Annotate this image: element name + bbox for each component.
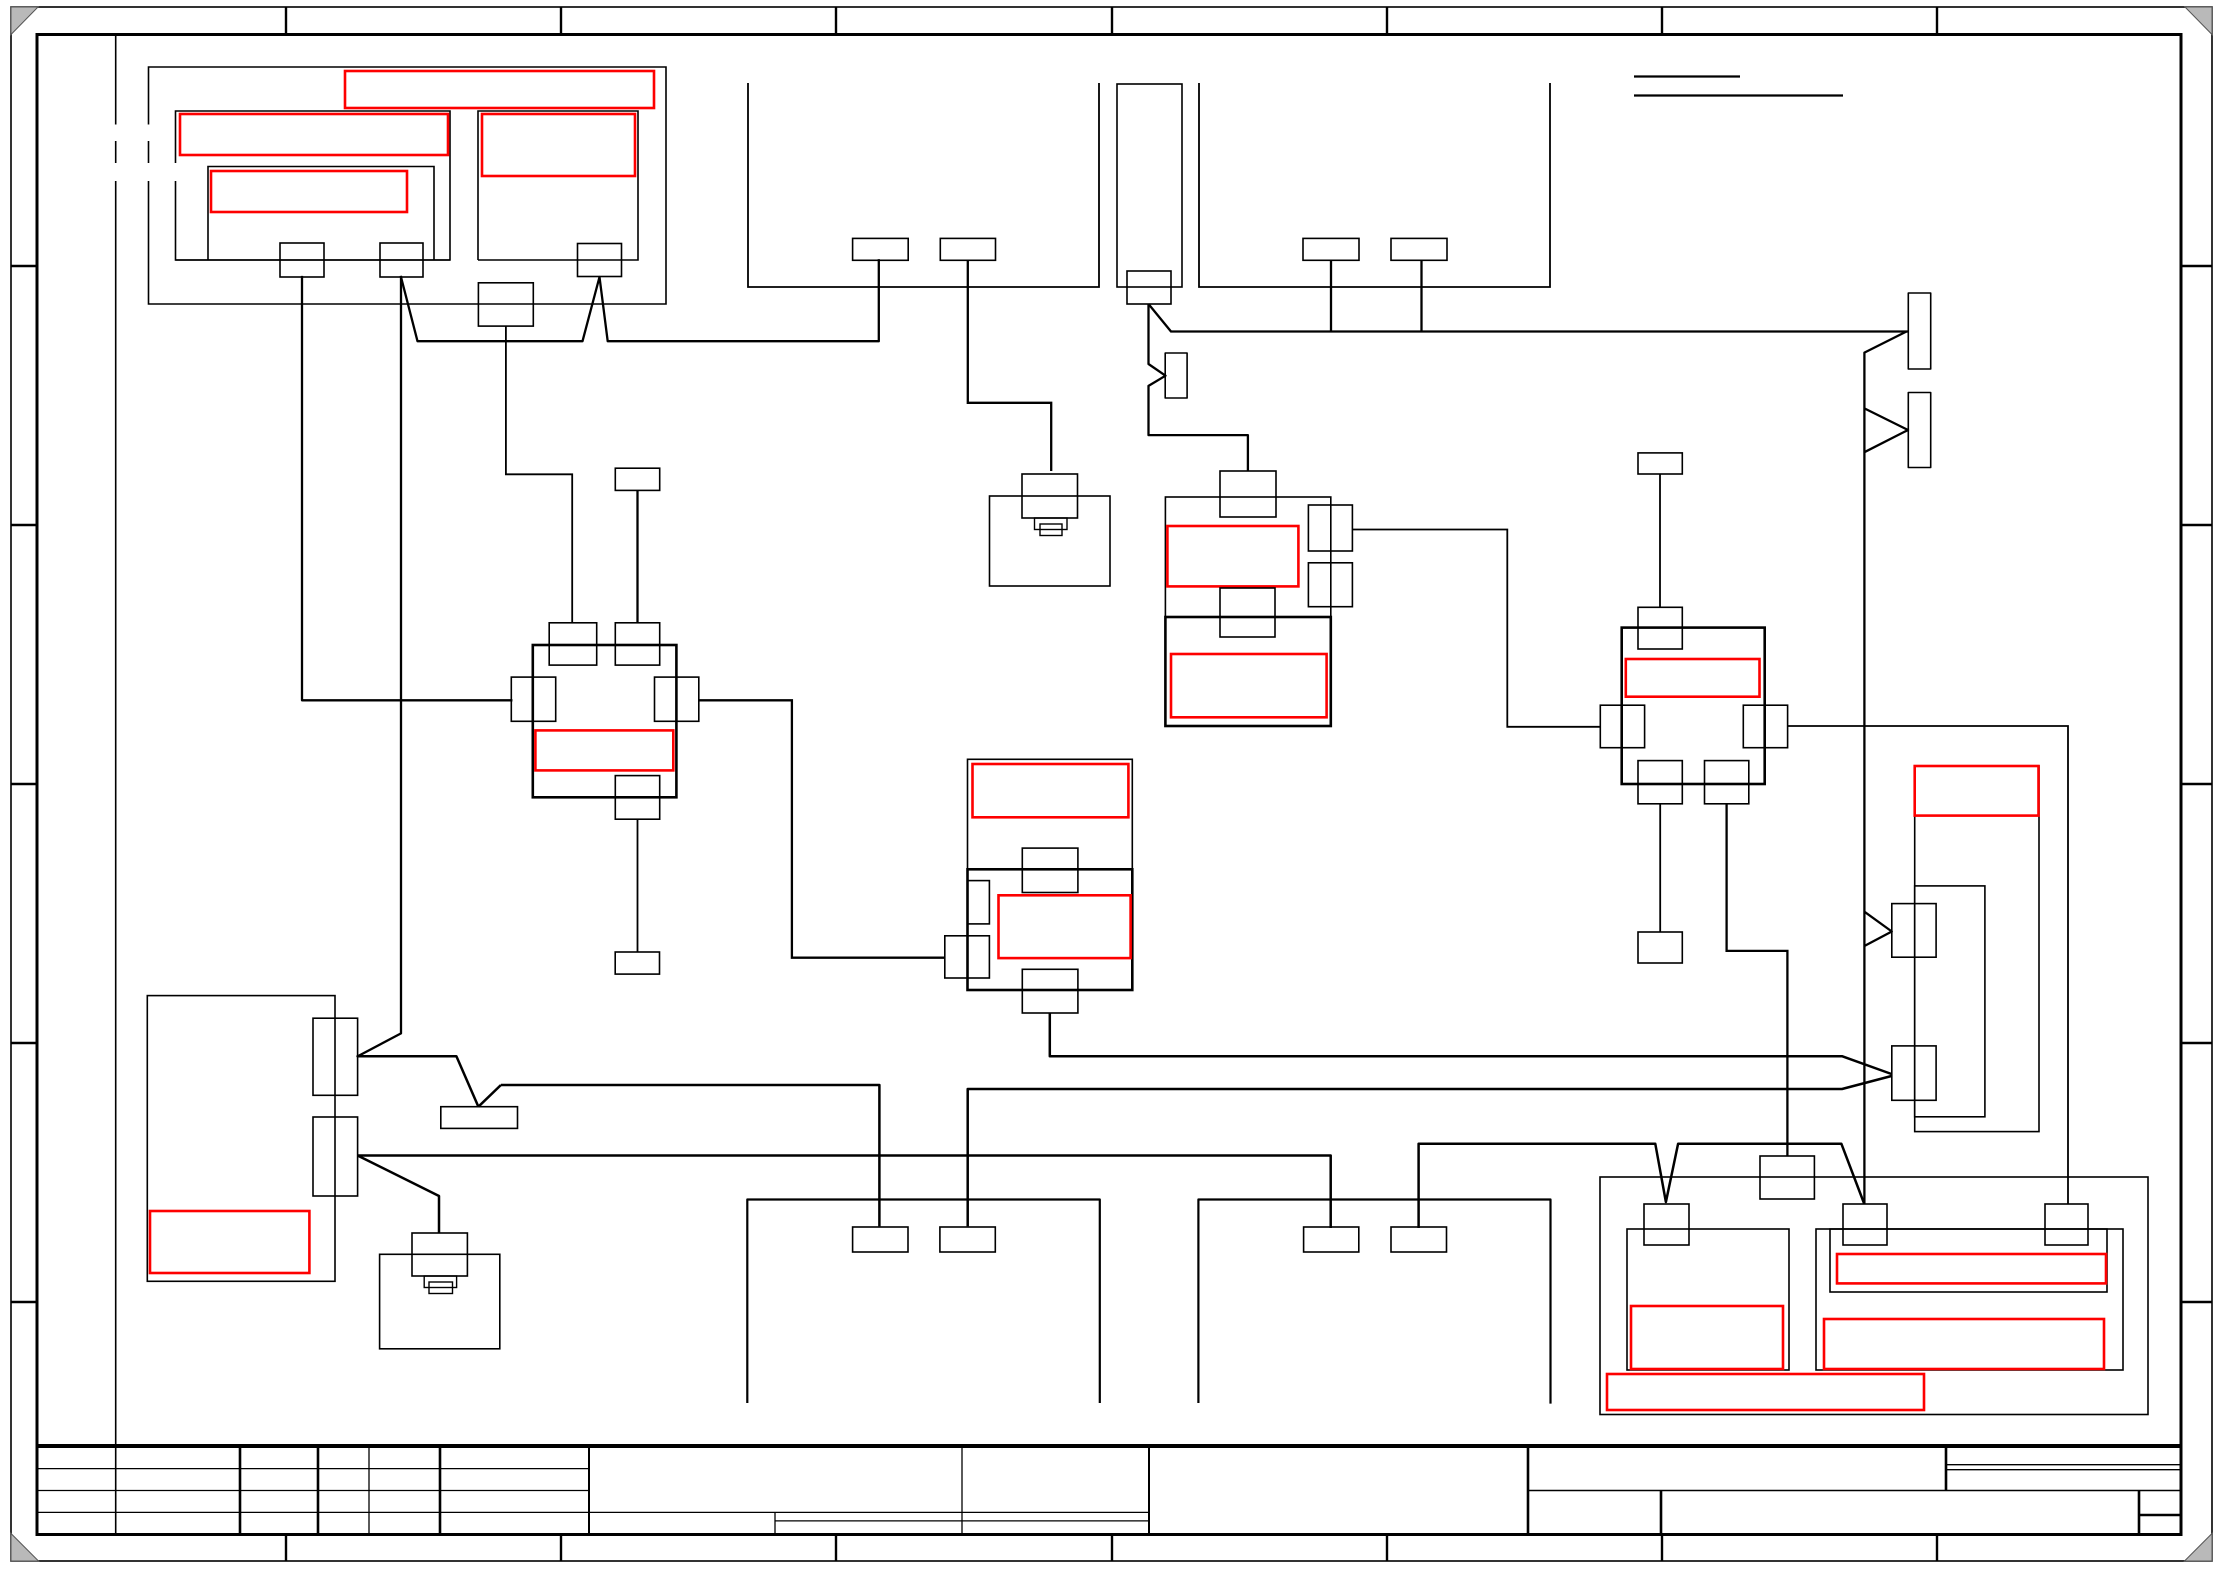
LEFT RELAY CLUSTER: [478, 283, 944, 974]
title row line 2: [37, 1490, 589, 1492]
stem U2-1 to bus: [1330, 260, 1332, 331]
fan into box H pin 1: [1864, 912, 1891, 946]
pin UB1-2: [940, 1227, 995, 1252]
wire W: U-box2 pin2 up, right, V-dip, to bottom-right pins: [1419, 1144, 1865, 1228]
TOP MIDDLE: [748, 83, 1550, 586]
BOTTOM LEFT CLUSTER (box I): [147, 996, 357, 1282]
MAIN RIGHTWARD BUS from tall-rect pin: [1149, 293, 1931, 1204]
camera pin: [1022, 474, 1078, 518]
WIRES top-left: [302, 260, 879, 1056]
small box E on equipment box A bottom: [478, 283, 533, 326]
red box I1: [150, 1211, 309, 1273]
pin P1: [280, 243, 324, 277]
bottom margin zone ticks: [286, 1535, 1937, 1562]
pin F-mid (on divider): [1220, 588, 1275, 637]
pin F-top: [1220, 471, 1276, 517]
box H inner rect: [1915, 886, 1985, 1117]
relay pin bottom: [615, 776, 659, 820]
pin BR-B: [1843, 1204, 1887, 1245]
wire P2 down to box I pin1 (long vertical): [358, 277, 401, 1056]
bottom U-box 1 top rail: [747, 1200, 1100, 1404]
pin BR-A: [1644, 1204, 1689, 1245]
box G (thick): [1622, 628, 1765, 784]
pin I-1 (tall): [313, 1018, 358, 1095]
wire relay right pin to box K left pin: [699, 700, 945, 957]
red box R1-2: [1824, 1319, 2104, 1369]
right margin zone ticks: [2181, 266, 2212, 1302]
bus B1 from box K bottom pin to box H pin2 (arrow): [1050, 1013, 1892, 1074]
title row line 3b: [775, 1520, 1149, 1522]
BOTTOM U-BOXES: [853, 1227, 1447, 1252]
box I pin1 wire to vertical: [358, 1056, 479, 1106]
pin F-right-1: [1308, 505, 1352, 551]
box I: [147, 996, 335, 1282]
connector box C: [208, 167, 434, 261]
title column dividers: [239, 1446, 242, 1535]
corner triangle top-left: [11, 7, 38, 35]
relay pin top-2: [615, 623, 659, 665]
camera inner rect 1: [1035, 518, 1068, 530]
pin H-1: [1892, 904, 1936, 958]
pin K-bottom: [1022, 969, 1078, 1013]
red box F1: [1167, 526, 1298, 586]
pin P2: [380, 243, 423, 277]
red box F2: [1171, 654, 1327, 717]
title row thick short right: [2139, 1514, 2181, 1517]
ref line 1: [1634, 75, 1740, 77]
CENTER CLUSTER (box K): [945, 759, 1133, 1013]
relay pin left: [511, 677, 555, 721]
relay pin right: [655, 677, 699, 721]
bus B3 from box I pin2 to U-box2 pin1: [358, 1156, 1331, 1229]
camera2 wire diagonal from box I pin2: [358, 1156, 439, 1234]
pin G-right: [1743, 705, 1787, 748]
small source box above G: [1638, 453, 1682, 474]
pin H-2: [1892, 1046, 1936, 1100]
inner box R2: [1830, 1229, 2107, 1292]
red box H1: [1915, 766, 2039, 816]
red box relay: [535, 730, 673, 770]
highlight red box C1: [211, 171, 407, 212]
terminal rect tap 1: [1908, 293, 1930, 369]
relay box (thick): [533, 645, 677, 797]
pin K-left: [945, 936, 990, 978]
splice J fan up to B2: [478, 1085, 501, 1107]
wire F-right-1 to box G left pin: [1352, 530, 1600, 727]
red box K2: [999, 895, 1131, 958]
pin U1-1: [853, 238, 909, 260]
title row line 1: [37, 1468, 589, 1470]
BOTTOM RIGHT CLUSTER: [1600, 1156, 2148, 1415]
BOTTOM CAMERA CLUSTER: [380, 1233, 500, 1349]
title row line right 1: [1528, 1490, 2181, 1492]
MIDDLE CLUSTER (box F): [1165, 471, 1600, 727]
highlight red box A1: [345, 71, 654, 108]
red box bottom wide: [1607, 1374, 1924, 1410]
pin K divider: [1022, 848, 1078, 892]
box F lower section (thick): [1165, 617, 1330, 726]
LONG HORIZONTAL BUSES: [358, 1013, 1892, 1404]
pin G-left: [1600, 705, 1644, 748]
camera2 pin: [412, 1233, 467, 1276]
box K lower section (thick): [968, 869, 1133, 990]
highlight red box B1: [180, 114, 448, 155]
terminal box above relay: [615, 468, 659, 490]
wire U1-2 to camera connector: [968, 260, 1051, 471]
connector box D: [478, 111, 638, 260]
terminal rect tap 2: [1908, 393, 1930, 468]
pin UB2-1: [1304, 1227, 1359, 1252]
left margin zone ticks: [11, 266, 37, 1302]
terminal box under G: [1638, 932, 1682, 963]
wire box E to relay top pin 1: [506, 326, 572, 623]
pin F-right-2: [1308, 563, 1352, 607]
splice box J: [441, 1107, 518, 1129]
corner triangle bottom-left: [11, 1534, 39, 1562]
title row line far right b: [1946, 1469, 2181, 1471]
top right reference lines: [1634, 77, 1843, 96]
camera inner rect 2: [1040, 524, 1062, 536]
narrow rect inside K left: [968, 881, 990, 924]
terminal box below relay: [615, 952, 659, 974]
wire G-bottom-2 to small box on bottom-right cluster: [1727, 804, 1788, 1156]
top margin zone ticks: [286, 7, 1937, 35]
diagonal from pin to bus: [1149, 304, 1909, 332]
title row line far right a: [1946, 1464, 2181, 1466]
red box G1: [1626, 659, 1760, 697]
box F upper section: [1165, 497, 1330, 617]
pin down-branch with splice arrow: [1149, 304, 1248, 471]
tap diagonal to terminal 2: [1864, 408, 1908, 452]
pin UB2-2: [1391, 1227, 1447, 1252]
RIGHT CLUSTER (box H): [1892, 766, 2039, 1132]
pin G-bottom-1: [1638, 761, 1682, 804]
splice rect: [1165, 353, 1187, 398]
wire bundle P2/P3/U1pin1 (lambda merge): [401, 260, 879, 341]
red box R2-1: [1837, 1254, 2106, 1283]
pin I-2 (tall): [313, 1117, 358, 1196]
corner triangle top-right: [2185, 7, 2212, 35]
diagonal bus into vertical trunk: [1864, 332, 1906, 1205]
corner triangle bottom-right: [2185, 1534, 2213, 1562]
equipment box A (outer) with label gaps on left edge: [149, 67, 667, 304]
U-box 1 (open top equipment boundary): [748, 83, 1099, 287]
highlight red box D1: [482, 114, 635, 176]
left column divider line x=115.7 (with two label gaps): [115, 35, 117, 1535]
ref line 2: [1634, 94, 1843, 96]
connector box B with label gap on left edge: [176, 111, 451, 260]
title block top line: [37, 1444, 2181, 1448]
tall connector rect: [1117, 84, 1182, 287]
red box L1: [1631, 1306, 1783, 1369]
TITLE BLOCK: [37, 1446, 2181, 1535]
wire terminal to relay top pin 2: [636, 490, 638, 622]
pin UB1-1: [853, 1227, 908, 1252]
title row line 3: [37, 1511, 1149, 1513]
red box K1: [973, 764, 1129, 817]
inner box R1: [1816, 1229, 2123, 1370]
wire G-bottom-1 to terminal: [1659, 804, 1661, 932]
box H outer: [1915, 766, 2039, 1132]
small box on top edge: [1760, 1156, 1814, 1199]
camera2 inner rect 1: [424, 1276, 456, 1288]
relay pin top-1: [549, 623, 597, 665]
pin under tall rect: [1127, 271, 1171, 304]
pin U2-1: [1303, 238, 1359, 260]
bottom U-box 2 top rail: [1198, 1200, 1550, 1404]
pin U2-2: [1391, 238, 1447, 260]
wire down to G top pin: [1659, 474, 1661, 607]
wire relay bottom pin to terminal: [637, 819, 639, 952]
wire P1 to relay left pin: [302, 277, 511, 700]
pin G-top: [1638, 607, 1682, 649]
outer boundary box: [1600, 1177, 2148, 1415]
box K upper section: [968, 759, 1133, 869]
U-box 2 (open top equipment boundary): [1199, 83, 1550, 287]
pin G-bottom-2: [1705, 761, 1749, 804]
inner box L: [1627, 1229, 1789, 1370]
TOP LEFT CLUSTER: [149, 67, 667, 304]
stem U2-2 to bus: [1420, 260, 1422, 331]
bus B2 from splice J to U-box1 pin1: [501, 1085, 880, 1226]
wire G-right to bottom-right cluster: [1788, 726, 2068, 1204]
splice box J: [441, 1107, 518, 1129]
pin P3 (box D): [578, 244, 622, 277]
bus B2' from U-box1 pin2 to box H pin2 (arrow): [968, 1076, 1892, 1226]
RIGHT-MIDDLE CLUSTER (box G): [1600, 453, 2068, 1204]
pin BR-C: [2045, 1204, 2088, 1245]
pin U1-2: [940, 238, 995, 260]
camera2 body: [380, 1254, 500, 1349]
bottom edge of box B/C shared: [176, 259, 451, 261]
camera2 inner rect 2: [429, 1282, 453, 1294]
camera body box: [990, 496, 1111, 586]
